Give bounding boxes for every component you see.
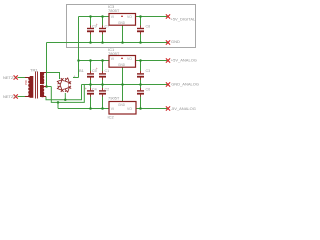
- polarity plus marks: [85, 23, 98, 91]
- wire NETZ2 port to transformer: [18, 96, 26, 98]
- port +5V_DIGITAL: [166, 14, 196, 21]
- svg-text:+: +: [85, 87, 87, 91]
- svg-text:GND: GND: [118, 21, 126, 25]
- svg-text:+: +: [96, 23, 98, 27]
- svg-text:GND_ANALOG: GND_ANALOG: [171, 82, 199, 87]
- svg-text:C4: C4: [92, 88, 97, 92]
- capacitor labels: [92, 25, 150, 92]
- capacitor C6: [137, 90, 144, 94]
- diode D1 top-left: [56, 77, 65, 86]
- svg-text:VO: VO: [127, 107, 132, 111]
- diode D3 bottom-right: [64, 84, 73, 93]
- bridge rectifier B1: [56, 77, 72, 94]
- voltage regulator IC3 7805T: [108, 4, 136, 25]
- primary coil: [30, 76, 33, 98]
- svg-text:7805T: 7805T: [108, 8, 120, 13]
- svg-text:VO: VO: [127, 15, 132, 19]
- wire analog GND rail y=85: [82, 84, 169, 86]
- wire vertical raw V+ feed x=78: [78, 17, 80, 78]
- svg-text:VI: VI: [111, 15, 114, 19]
- svg-text:NETZ2: NETZ2: [3, 94, 16, 99]
- wire IC1 GND pin stub: [122, 67, 124, 84]
- svg-text:GND: GND: [118, 103, 126, 107]
- wire transformer secondary top to bridge AC1: [46, 73, 60, 80]
- wire V- rail to IC2 VI: [58, 108, 109, 110]
- svg-text:VO: VO: [127, 57, 132, 61]
- svg-text:B1: B1: [79, 68, 85, 73]
- voltage regulator IC1 7805T: [108, 47, 136, 67]
- wire capacitor C7 leads: [102, 17, 104, 43]
- wire IC3 GND pin stub: [122, 25, 124, 42]
- port NETZ2: [3, 94, 18, 99]
- wire V+ rail y=60.5 to IC1 VI: [79, 60, 110, 62]
- secondary pin stubs: [43, 73, 46, 97]
- frame box around digital supply section: [67, 5, 196, 48]
- svg-text:IC2: IC2: [108, 115, 115, 120]
- capacitor red pin stubs: [91, 26, 141, 97]
- svg-text:VI: VI: [111, 57, 114, 61]
- svg-text:C6: C6: [146, 88, 151, 92]
- secondary winding 1: [40, 72, 43, 84]
- primary pin stubs: [25, 78, 30, 97]
- capacitor C9: [87, 28, 94, 32]
- wire secondary bottom jog: [45, 85, 82, 100]
- wire capacitor C3 leads: [140, 61, 142, 85]
- port NETZ1: [3, 75, 18, 80]
- wire IC2 GND pin stub: [122, 85, 124, 102]
- wire bridge AC2 riser: [64, 93, 66, 100]
- port +5V_ANALOG: [166, 58, 197, 63]
- wire capacitor C8 leads: [140, 17, 142, 43]
- secondary winding 2: [40, 85, 43, 97]
- svg-text:C8: C8: [146, 25, 151, 29]
- capacitor C3: [137, 73, 144, 77]
- junction dots: [45, 15, 142, 110]
- svg-text:+: +: [96, 67, 98, 71]
- svg-text:VI: VI: [111, 107, 114, 111]
- core lines: [36, 72, 38, 99]
- transformer TR1: [24, 68, 46, 99]
- svg-text:C2: C2: [105, 88, 110, 92]
- wire capacitor C5 leads: [90, 61, 92, 85]
- port -5V_ANALOG: [166, 106, 196, 111]
- wire capacitor C9 leads: [90, 17, 92, 43]
- svg-text:GND: GND: [171, 39, 180, 44]
- svg-text:NETZ1: NETZ1: [3, 75, 16, 80]
- wire NETZ1 port to transformer: [18, 77, 26, 79]
- capacitor C5: [87, 73, 94, 77]
- svg-text:PRI: PRI: [24, 80, 28, 85]
- wire capacitor C2 leads: [102, 85, 104, 109]
- capacitor C2: [99, 90, 106, 94]
- wire IC3 VO to +5V_DIGITAL port: [136, 16, 168, 18]
- wire transformer center tap: [46, 86, 51, 88]
- svg-text:GND: GND: [118, 63, 126, 67]
- wire GND vertical x=46.5 to transformer tap: [46, 43, 48, 87]
- svg-text:C3: C3: [146, 69, 151, 73]
- wire bridge plus stub: [73, 77, 79, 79]
- port GND_ANALOG: [166, 82, 199, 87]
- svg-text:7905T: 7905T: [108, 96, 120, 101]
- svg-text:-5V_ANALOG: -5V_ANALOG: [171, 106, 196, 111]
- capacitor C1: [99, 73, 106, 77]
- wire GND route under bridge: [51, 85, 84, 103]
- capacitor C4: [87, 90, 94, 94]
- port GND: [166, 39, 180, 45]
- capacitor C8: [137, 28, 144, 32]
- wire top rail +raw to IC3 VI: [79, 16, 110, 18]
- wire capacitor C6 leads: [140, 85, 142, 109]
- svg-text:C1: C1: [105, 69, 110, 73]
- wire capacitor C1 leads: [102, 61, 104, 85]
- wire IC1 VO to +5V_ANALOG port: [136, 60, 168, 62]
- svg-text:+5V_DIGITAL: +5V_DIGITAL: [171, 16, 196, 21]
- voltage regulator IC2 7905T: [108, 96, 137, 120]
- svg-text:7805T: 7805T: [108, 51, 120, 56]
- wire V- rail riser: [57, 102, 59, 108]
- capacitor C7: [99, 28, 106, 32]
- svg-text:+5V_ANALOG: +5V_ANALOG: [171, 58, 197, 63]
- wire digital GND rail y=42: [47, 42, 169, 44]
- wire IC2 VO to -5V_ANALOG port: [136, 108, 167, 110]
- diode D4 bottom-left: [56, 84, 65, 93]
- wire capacitor C4 leads: [90, 85, 92, 109]
- diode D2 top-right: [64, 77, 73, 86]
